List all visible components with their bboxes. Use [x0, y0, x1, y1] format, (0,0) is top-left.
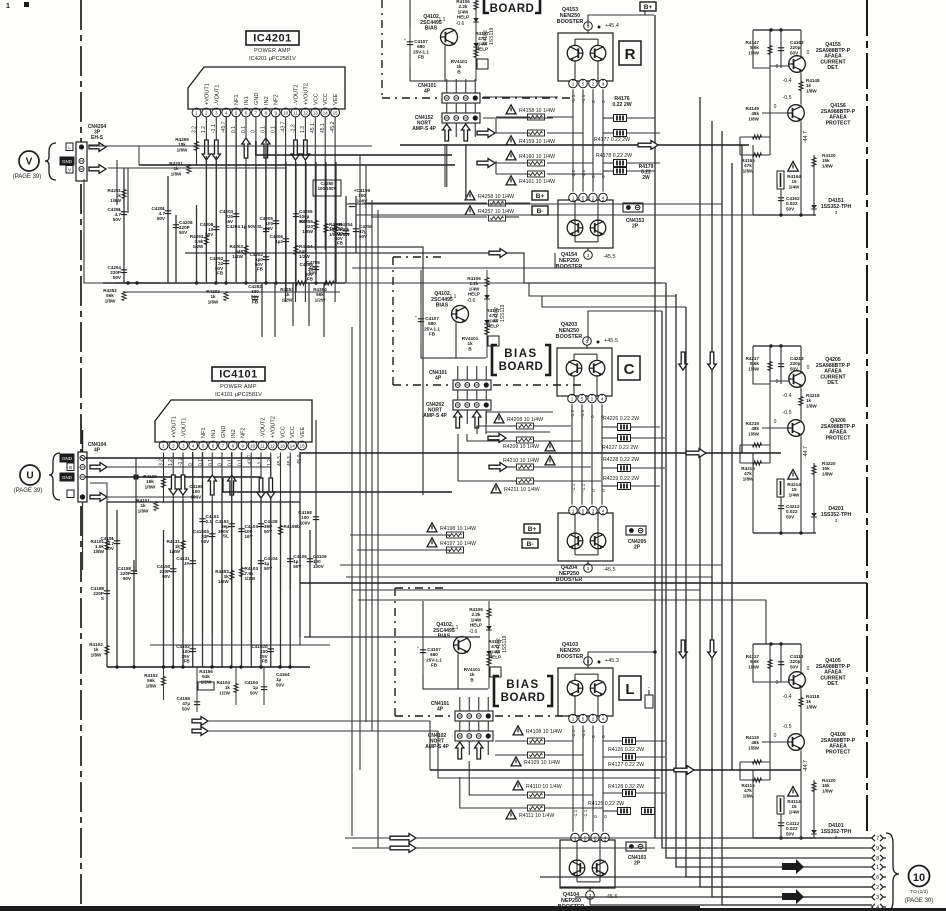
wire y453 long — [300, 452, 781, 454]
svg-text:3: 3 — [876, 895, 879, 901]
svg-text:R4198 10 1/4W: R4198 10 1/4W — [440, 526, 476, 532]
wire — [770, 681, 789, 683]
svg-text:5: 5 — [582, 81, 585, 86]
svg-text:0.1: 0.1 — [228, 459, 234, 466]
svg-text:-44.7: -44.7 — [803, 131, 809, 143]
svg-text:GND: GND — [254, 93, 260, 105]
svg-text:9: 9 — [876, 846, 879, 852]
wire — [309, 530, 311, 637]
signal arrow on wire — [390, 834, 416, 843]
wire long y838/848 from left — [345, 837, 872, 839]
wire — [655, 15, 872, 838]
BIAS BOARD label R (top, cut) — [484, 0, 489, 13]
svg-text:U: U — [26, 471, 33, 482]
svg-text:B+: B+ — [644, 4, 653, 11]
IC4101 pin 1 — [159, 441, 168, 450]
wire — [231, 452, 233, 667]
net label B+ — [640, 2, 656, 11]
svg-text:2: 2 — [592, 508, 595, 513]
svg-text:7: 7 — [876, 836, 879, 842]
capacitor C4107 — [420, 304, 422, 344]
op-amp IC4201 body — [188, 67, 345, 109]
signal arrow down — [291, 140, 299, 160]
op-amp IC4201 title — [246, 31, 299, 45]
capacitor C4104 — [261, 686, 267, 688]
diode D4201 1SS352-TPH — [811, 513, 817, 517]
transistor Q4206 (PROTECT) — [788, 420, 805, 437]
C channel conn wires — [486, 411, 553, 413]
svg-text:-1.1: -1.1 — [583, 809, 589, 818]
svg-text:-44.7: -44.7 — [803, 446, 809, 458]
wire — [205, 156, 207, 283]
signal arrow from CN4204 pin3 — [89, 165, 106, 174]
wire — [163, 530, 165, 667]
svg-text:0: 0 — [774, 733, 777, 739]
svg-text:1SS119: 1SS119 — [502, 635, 508, 653]
svg-text:GND: GND — [62, 456, 73, 461]
IC4101 pin 6 — [209, 441, 218, 450]
wire — [163, 667, 165, 700]
IC4201 pin 15 — [331, 108, 340, 117]
transistor Q4106 (PROTECT) — [788, 734, 805, 751]
svg-text:0: 0 — [774, 419, 777, 425]
pin label box empty — [67, 490, 74, 498]
signal arrow y253 — [489, 249, 507, 258]
svg-text:0: 0 — [591, 100, 597, 103]
svg-text:1: 1 — [572, 716, 575, 721]
wire — [255, 165, 257, 283]
svg-text:1: 1 — [6, 3, 10, 10]
resistor R4118 (1k) — [799, 698, 803, 707]
IC4101 pin 7 — [219, 441, 228, 450]
IC4201 pin 5 — [232, 108, 241, 117]
L nested corners — [208, 721, 430, 770]
wire — [221, 492, 223, 667]
transistor Q4156 (PROTECT) — [788, 105, 805, 122]
svg-text:5: 5 — [582, 716, 585, 721]
wire — [712, 121, 872, 897]
pin label GND — [60, 473, 74, 481]
svg-text:12: 12 — [270, 443, 275, 448]
fusible resistor vertical — [777, 171, 784, 189]
svg-text:13: 13 — [313, 110, 318, 115]
svg-text:-1.1: -1.1 — [570, 409, 576, 418]
wire — [753, 346, 770, 384]
transistor Q4205 (CURRENT DET) — [789, 371, 806, 388]
fusible resistor R4159 — [506, 136, 516, 145]
svg-text:R4111 10 1/4W: R4111 10 1/4W — [519, 813, 554, 819]
fusible resistor R4110 — [513, 781, 523, 790]
wire — [686, 307, 872, 877]
svg-text:-0.6: -0.6 — [467, 298, 476, 304]
svg-text:+VOUT1: +VOUT1 — [171, 416, 177, 438]
svg-text:R4158 10 1/4W: R4158 10 1/4W — [519, 108, 555, 114]
wire — [133, 560, 135, 667]
node U (PAGE 39) — [20, 465, 40, 485]
svg-text:IN1: IN1 — [244, 96, 250, 105]
wire to <7> — [753, 837, 872, 839]
fusible resistor R4158 — [506, 105, 516, 114]
svg-text:-1.1: -1.1 — [571, 94, 577, 103]
svg-text:11: 11 — [260, 443, 265, 448]
svg-text:0: 0 — [218, 463, 224, 466]
svg-text:-44.7: -44.7 — [803, 760, 809, 772]
svg-text:VEE: VEE — [300, 427, 306, 438]
svg-text:5: 5 — [582, 195, 585, 200]
wire — [602, 89, 604, 191]
wire — [592, 89, 594, 191]
resistor R4255 — [314, 221, 318, 230]
net label B- — [532, 206, 548, 215]
resistor R4151 — [154, 502, 158, 511]
svg-text:NF1: NF1 — [234, 94, 240, 105]
fusible resistor R4161 — [506, 176, 516, 185]
wire — [196, 205, 198, 283]
resistor R4218 (1k) — [799, 397, 803, 406]
svg-text:1.1: 1.1 — [439, 17, 446, 23]
resistor R4199 — [161, 479, 165, 488]
resistor R4103 — [239, 568, 243, 577]
wire y770 long — [430, 769, 801, 771]
svg-text:R: R — [625, 46, 636, 63]
L channel fuse wires — [495, 740, 527, 742]
svg-text:-0.4: -0.4 — [783, 694, 792, 700]
svg-text:10: 10 — [913, 872, 925, 884]
svg-text:IC4201: IC4201 — [253, 33, 291, 45]
svg-text:R41062.2k1/4WHELP: R41062.2k1/4WHELP — [456, 0, 470, 20]
svg-text:0: 0 — [807, 50, 810, 56]
wire — [135, 458, 137, 572]
bottom connector wires — [540, 876, 872, 878]
op-amp IC4101 body — [155, 400, 312, 442]
svg-text:-0.4: -0.4 — [783, 393, 792, 399]
transistor Q4102 (2SC4495 BIAS) — [452, 306, 469, 323]
resistor R4131 — [181, 541, 185, 550]
wire — [280, 500, 282, 667]
svg-text:12: 12 — [303, 110, 308, 115]
signal arrow up — [242, 138, 250, 158]
signal arrow down — [169, 475, 177, 495]
component small box right of L letter — [645, 695, 653, 708]
connector CN4102 4P — [455, 731, 493, 741]
IC4201 pin 11 — [291, 108, 300, 117]
svg-text:14: 14 — [290, 443, 295, 448]
svg-text:VEE: VEE — [333, 94, 339, 105]
booster Q4154 (NEP250) box — [558, 200, 613, 248]
wire — [223, 478, 452, 492]
svg-text:VCC: VCC — [280, 426, 286, 438]
wire +45 to bundle L — [588, 652, 655, 663]
svg-text:L: L — [68, 145, 71, 150]
svg-text:0: 0 — [591, 735, 597, 738]
svg-text:-1.1: -1.1 — [581, 729, 587, 738]
svg-text:0: 0 — [601, 175, 607, 178]
brace to page 10 — [886, 833, 899, 911]
capacitor C4212 — [778, 505, 784, 507]
IC4201 pin 7 — [252, 108, 261, 117]
diode D4151 1SS352-TPH — [811, 205, 817, 209]
verticals between R and C connectors — [444, 144, 446, 187]
connector CN4202 4P — [453, 400, 491, 410]
svg-text:BIAS: BIAS — [506, 679, 539, 691]
fusible resistor R4258 — [465, 191, 475, 200]
svg-text:R4227 0.22 2W: R4227 0.22 2W — [602, 445, 638, 451]
bias network box — [410, 0, 475, 81]
svg-text:BOARD: BOARD — [499, 361, 544, 373]
connector CN4153 2P — [623, 203, 643, 212]
capacitor C4208 — [213, 226, 219, 228]
svg-text:-0.5: -0.5 — [783, 724, 792, 730]
signal arrow from CN4104 pin4 — [90, 493, 107, 502]
svg-text:R4160 10 1/4W: R4160 10 1/4W — [519, 154, 555, 160]
svg-text:POWER AMP: POWER AMP — [220, 384, 257, 390]
svg-text:+45.3: +45.3 — [605, 658, 619, 664]
svg-text:VCC: VCC — [290, 426, 296, 438]
fusible resistor R4198 — [427, 523, 437, 532]
net label B+ — [532, 191, 548, 200]
capacitor C4252 — [252, 296, 258, 298]
wire B+/B- row feeds C — [350, 534, 450, 536]
svg-text:+VOUT1: +VOUT1 — [204, 83, 210, 105]
capacitor C4113 (220p) — [778, 661, 784, 663]
wire CN4202 pin wires down to fuse rows — [458, 434, 516, 481]
transistor Q4105 (CURRENT DET) — [789, 672, 806, 689]
page border bottom — [0, 906, 700, 911]
booster Q4204 pin 3 — [584, 564, 593, 573]
resistor R4251 — [122, 190, 126, 199]
svg-text:0: 0 — [776, 379, 779, 385]
resistor R4120 (15k) — [812, 783, 816, 792]
wire — [572, 725, 574, 831]
R fuse verticals — [495, 119, 497, 133]
svg-text:C4284 1µ 50V SL: C4284 1µ 50V SL — [226, 224, 263, 229]
resistor R4107 (470 HELP) — [484, 320, 490, 324]
svg-text:-VOUT1: -VOUT1 — [214, 84, 220, 105]
resistor R4104 — [234, 684, 238, 693]
diode D4102 1SS119 — [475, 0, 477, 81]
booster Q4153 (NEN250) box — [558, 33, 613, 81]
wire y268-304 horizontals — [352, 267, 655, 269]
svg-text:4: 4 — [876, 905, 879, 911]
booster Q4104 (NEP250) box — [560, 840, 615, 888]
svg-text:IN1: IN1 — [211, 429, 217, 438]
capacitor C4107 — [409, 27, 411, 67]
resistor R4217 (5.6k) — [768, 362, 772, 371]
transistor Q4104a — [569, 860, 585, 876]
fusible resistor R4257 — [465, 206, 475, 215]
svg-text:-45.5: -45.5 — [603, 567, 616, 573]
IC4101 pin 14 — [288, 441, 297, 450]
fusible resistor R4208 — [494, 414, 504, 423]
wire — [335, 162, 337, 283]
wire — [235, 116, 237, 283]
diode D4102 1SS119 — [486, 270, 488, 358]
wire protect bottom — [753, 837, 816, 839]
IC4101 pin 3 — [179, 441, 188, 450]
pin label box E — [66, 143, 73, 151]
fusible resistor R4197 — [427, 538, 437, 547]
wire — [116, 510, 118, 667]
booster Q4103 (NEN250) box — [558, 668, 613, 716]
transistor Q4203a — [566, 360, 582, 376]
black arrows bottom — [782, 859, 804, 874]
svg-text:B+: B+ — [528, 526, 537, 533]
svg-text:-1.1: -1.1 — [581, 94, 587, 103]
svg-text:8: 8 — [876, 856, 879, 862]
transistor Q4203b — [589, 360, 605, 376]
signal arrow up into connector — [454, 411, 462, 428]
wire — [175, 215, 177, 283]
svg-text:0: 0 — [601, 100, 607, 103]
capacitor C4203 — [233, 213, 239, 215]
wire — [587, 665, 589, 668]
svg-text:+VOUT2: +VOUT2 — [303, 83, 309, 105]
capacitor C4213 (220p) — [778, 363, 784, 365]
wire — [325, 162, 327, 283]
svg-text:4: 4 — [602, 195, 605, 200]
wire — [770, 380, 789, 382]
fusible resistor vertical — [777, 479, 784, 497]
wire — [581, 404, 583, 504]
svg-text:R4198b: R4198b — [284, 524, 301, 529]
IC4101 pin 13 — [278, 441, 287, 450]
svg-text:R4229 0.22 2W: R4229 0.22 2W — [603, 476, 639, 482]
capacitor C4102 — [190, 648, 196, 650]
svg-text:4: 4 — [602, 81, 605, 86]
svg-text:R4228 0.22 2W: R4228 0.22 2W — [603, 457, 639, 463]
svg-text:VCC: VCC — [313, 93, 319, 105]
transistor Q4204a — [567, 533, 583, 549]
wire — [587, 248, 589, 251]
transistor Q4104b — [592, 860, 608, 876]
connector pin wires — [446, 79, 448, 93]
wire — [731, 163, 733, 770]
C channel arrows — [488, 434, 506, 443]
svg-text:R4209 10 1/4W: R4209 10 1/4W — [503, 444, 539, 450]
svg-text:3: 3 — [587, 566, 590, 571]
svg-text:-VOUT2: -VOUT2 — [294, 84, 300, 105]
capacitor C4151 — [199, 518, 205, 520]
resistor R4293 — [204, 236, 208, 245]
svg-text:IC4201 μPC2581V: IC4201 μPC2581V — [249, 56, 296, 62]
resistor R4107 (470 HELP) — [473, 43, 479, 47]
svg-text:10: 10 — [250, 443, 255, 448]
booster Q4203 pins 1 5 2 4 — [568, 394, 577, 403]
wire B+/B- row feeds R — [364, 202, 487, 204]
svg-text:R4108 10 1/4W: R4108 10 1/4W — [526, 729, 562, 735]
fusible resistor R4109 — [511, 757, 521, 766]
svg-text:GND: GND — [62, 159, 73, 164]
BIAS BOARD label — [494, 676, 499, 706]
resistor R4117 (5.6k) — [768, 660, 772, 669]
svg-text:-1.1: -1.1 — [580, 409, 586, 418]
pin label GND — [60, 454, 74, 462]
svg-text:B-: B- — [527, 541, 534, 548]
svg-text:IN2: IN2 — [231, 429, 237, 438]
fusible resistor R4108 — [513, 726, 523, 735]
svg-text:VCC: VCC — [323, 93, 329, 105]
svg-text:R4211 10 1/4W: R4211 10 1/4W — [504, 487, 540, 493]
signal arrow up into connector — [456, 742, 464, 759]
svg-text:1SS119: 1SS119 — [489, 27, 495, 45]
capacitor C4256 — [353, 228, 359, 230]
wire +45 feeds — [587, 337, 589, 341]
wire protect top — [753, 29, 801, 31]
svg-text:3: 3 — [835, 518, 838, 523]
IC4101 pin 10 — [248, 441, 257, 450]
transistor Q4103b — [590, 680, 606, 696]
net label B- — [522, 539, 538, 548]
transistor Q4154b — [590, 220, 606, 236]
svg-text:BIAS: BIAS — [504, 348, 537, 360]
transistor Q4204b — [590, 533, 606, 549]
IC4201 pin 12 — [301, 108, 310, 117]
wire — [260, 500, 262, 667]
svg-text:11: 11 — [293, 110, 298, 115]
capacitor C4250 boxed label — [313, 180, 341, 196]
wire — [589, 888, 591, 891]
IC4101 pin 12 — [268, 441, 277, 450]
wire — [275, 116, 277, 283]
transistor Q4102 (2SC4495 BIAS) — [454, 637, 471, 654]
resistor R4253 label — [296, 281, 306, 285]
svg-text:0.1: 0.1 — [238, 459, 244, 466]
wire — [602, 725, 604, 831]
svg-text:R4161 10 1/4W: R4161 10 1/4W — [519, 179, 555, 185]
svg-text:15: 15 — [300, 443, 305, 448]
node L (channel label) — [619, 676, 641, 700]
diode D4101 1SS352-TPH — [811, 830, 817, 834]
svg-text:2: 2 — [591, 396, 594, 401]
wire — [345, 196, 347, 283]
capacitor C4112 — [778, 822, 784, 824]
resistor R4256 — [324, 224, 328, 233]
diode D4102 1SS119 — [488, 601, 490, 689]
wire — [770, 65, 789, 67]
transistor Q4155 (CURRENT DET) — [789, 56, 806, 73]
svg-text:4: 4 — [602, 508, 605, 513]
svg-text:+: + — [415, 314, 418, 319]
IC4101 pin wires — [163, 453, 165, 503]
svg-text:(PAGE 39): (PAGE 39) — [13, 174, 42, 180]
svg-text:5: 5 — [581, 396, 584, 401]
svg-text:-0.6: -0.6 — [456, 21, 465, 27]
resistor R4147 (5.6k) — [768, 46, 772, 55]
svg-text:3: 3 — [835, 210, 838, 215]
svg-text:R41760.22 2W: R41760.22 2W — [612, 96, 631, 108]
wire protect mid rows — [740, 444, 770, 446]
wire bottom field 4101 — [107, 666, 310, 668]
wire — [225, 116, 227, 283]
IC4201 pin 10 — [281, 108, 290, 117]
wire — [250, 500, 252, 667]
booster Q4104 pins 1 5 2 4 — [571, 833, 580, 842]
IC4101 pin 2 — [169, 441, 178, 450]
wire — [256, 141, 452, 155]
capacitor C4206 — [283, 238, 289, 240]
capacitor C4104 — [258, 560, 264, 562]
booster Q4153 pins 1 5 2 4 — [569, 79, 578, 88]
signal arrow down — [202, 140, 210, 160]
svg-text:B: B — [69, 465, 72, 470]
left dash-dot border — [80, 0, 82, 906]
node V (PAGE 39) — [19, 151, 39, 171]
svg-text:0: 0 — [591, 175, 597, 178]
bias board dashed outline — [395, 587, 447, 589]
capacitor C4156 — [194, 701, 200, 703]
svg-text:R4257 10 1/4W: R4257 10 1/4W — [478, 209, 514, 215]
capacitor C4153 — [229, 523, 235, 525]
